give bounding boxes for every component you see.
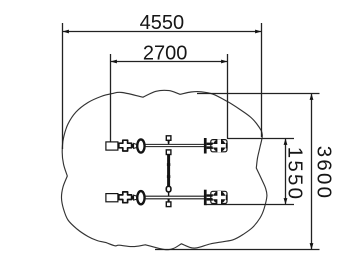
svg-text:1550: 1550 <box>284 147 307 201</box>
svg-text:4550: 4550 <box>140 12 185 34</box>
svg-text:3600: 3600 <box>313 146 336 200</box>
svg-text:2700: 2700 <box>143 43 188 65</box>
